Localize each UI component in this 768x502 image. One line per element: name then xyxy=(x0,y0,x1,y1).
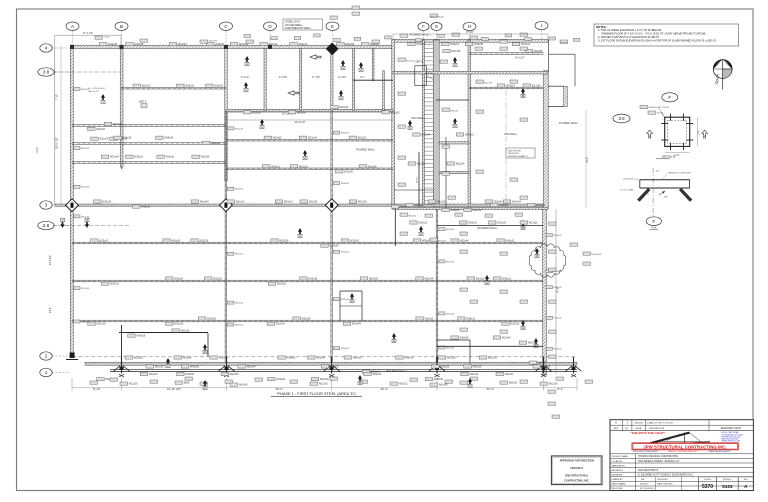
svg-text:W10x12: W10x12 xyxy=(528,342,537,345)
svg-text:W16x26: W16x26 xyxy=(439,384,448,387)
svg-text:W16x26: W16x26 xyxy=(277,283,286,286)
section flag A xyxy=(339,90,343,100)
svg-text:A: A xyxy=(704,134,706,138)
beam xyxy=(226,168,393,170)
room wall H strip lower xyxy=(439,172,469,174)
svg-text:SHOWN (CLARITY): SHOWN (CLARITY) xyxy=(508,155,528,158)
section flag D xyxy=(203,344,207,354)
svg-text:W10x12: W10x12 xyxy=(506,240,515,243)
svg-text:E: E xyxy=(393,339,395,343)
svg-text:D: D xyxy=(204,350,206,354)
svg-text:W12x26: W12x26 xyxy=(108,43,117,46)
column line beam xyxy=(436,209,438,364)
room bottom-right xyxy=(437,340,543,364)
svg-text:W12x19: W12x19 xyxy=(350,240,359,243)
grid bubble B xyxy=(115,22,128,46)
svg-text:W18x35: W18x35 xyxy=(434,378,443,381)
svg-text:W12x26: W12x26 xyxy=(446,347,455,349)
svg-text:27'-10": 27'-10" xyxy=(466,31,474,34)
svg-text:W12x19: W12x19 xyxy=(340,106,349,109)
section flag A xyxy=(303,150,307,160)
svg-text:A: A xyxy=(304,156,306,160)
right dimension line xyxy=(556,110,586,374)
svg-text:W10x12: W10x12 xyxy=(236,201,245,204)
section flag D down xyxy=(85,218,89,228)
svg-text:1: 1 xyxy=(45,370,48,375)
svg-text:W12x26: W12x26 xyxy=(235,254,244,256)
svg-text:(POURED WALL): (POURED WALL) xyxy=(477,226,498,230)
svg-text:W12x26: W12x26 xyxy=(447,357,456,360)
beam xyxy=(121,87,226,89)
svg-text:W10x12: W10x12 xyxy=(134,156,143,159)
section A-A braces xyxy=(637,188,692,202)
top-left dim line xyxy=(55,32,121,46)
svg-text:W16x26: W16x26 xyxy=(416,43,425,46)
svg-text:JPW STRUCTURAL: JPW STRUCTURAL xyxy=(565,473,589,477)
svg-text:W16x31: W16x31 xyxy=(509,382,518,385)
svg-text:1'-4": 1'-4" xyxy=(698,130,701,135)
section flag K xyxy=(408,120,412,130)
room wall H strip upper xyxy=(439,142,469,144)
svg-text:H: H xyxy=(486,281,488,285)
svg-text:A: A xyxy=(245,88,247,92)
svg-text:W12x19: W12x19 xyxy=(100,138,109,141)
svg-text:W18x35: W18x35 xyxy=(391,111,400,114)
svg-text:W21x44: W21x44 xyxy=(239,43,248,46)
section flag D xyxy=(203,380,207,390)
section flag M xyxy=(521,220,525,230)
svg-text:JPW STRUCTURAL CONTRACTING INC: JPW STRUCTURAL CONTRACTING INC. xyxy=(643,444,726,449)
svg-text:W18x35: W18x35 xyxy=(460,337,469,340)
svg-text:W12x19: W12x19 xyxy=(102,201,111,204)
svg-text:F: F xyxy=(652,219,655,224)
north rooms dim texts xyxy=(226,57,525,125)
svg-text:ENGINEER: ENGINEER xyxy=(612,475,623,477)
svg-text:W12x19: W12x19 xyxy=(437,201,446,204)
svg-text:W21x44: W21x44 xyxy=(425,278,434,281)
svg-text:W12x26: W12x26 xyxy=(440,366,449,369)
svg-text:W12x19: W12x19 xyxy=(211,142,220,145)
svg-text:FABRICATOR: FABRICATOR xyxy=(612,464,626,467)
section flag B xyxy=(534,338,538,348)
svg-text:W18x35: W18x35 xyxy=(369,278,378,281)
svg-text:W21x44: W21x44 xyxy=(421,134,430,137)
svg-text:POURED WALL: POURED WALL xyxy=(356,148,375,152)
top wall of NE block xyxy=(392,39,548,42)
svg-text:W12x26: W12x26 xyxy=(122,137,131,140)
grid bubble I xyxy=(535,21,548,40)
column labels xyxy=(74,87,563,350)
svg-text:W16x26: W16x26 xyxy=(451,209,460,212)
beam xyxy=(72,143,226,145)
notes block xyxy=(594,24,739,46)
svg-text:B: B xyxy=(120,24,123,29)
stair wall grid-G xyxy=(433,40,439,209)
wall grid-C xyxy=(225,46,227,181)
bottom dimension string xyxy=(72,378,577,391)
svg-text:W16x31: W16x31 xyxy=(408,215,417,217)
svg-text:W21x44: W21x44 xyxy=(352,323,361,326)
svg-text:W16x31: W16x31 xyxy=(284,201,293,204)
column line beam xyxy=(394,209,396,246)
svg-text:W16x31: W16x31 xyxy=(298,43,307,46)
svg-text:7-B12: 7-B12 xyxy=(104,36,111,38)
svg-text:W18x35: W18x35 xyxy=(287,357,296,360)
grid bubble 3 xyxy=(40,201,70,209)
svg-text:W18x35: W18x35 xyxy=(499,204,508,207)
svg-text:DECK NOT: DECK NOT xyxy=(508,153,520,155)
grid bubble G xyxy=(431,23,442,41)
svg-text:W16x31: W16x31 xyxy=(185,85,194,88)
svg-text:JOB No.: JOB No. xyxy=(704,479,712,481)
svg-text:W12x26: W12x26 xyxy=(554,318,563,320)
section flag B xyxy=(358,375,362,385)
bottom labels xyxy=(90,377,593,385)
NE protrusion outline xyxy=(548,40,575,107)
section A-A labels xyxy=(620,171,691,195)
svg-text:W12x26: W12x26 xyxy=(341,348,350,350)
svg-text:KGD ARCHITECTS: KGD ARCHITECTS xyxy=(638,469,659,472)
svg-text:W10x12: W10x12 xyxy=(149,373,158,376)
svg-text:W12x26: W12x26 xyxy=(134,357,143,360)
det-A room NE block xyxy=(415,66,434,86)
svg-text:1500 SENECA STREET - BUFFALO,: 1500 SENECA STREET - BUFFALO, NY xyxy=(638,460,680,463)
svg-text:W16x26: W16x26 xyxy=(113,123,122,126)
svg-text:W12x26: W12x26 xyxy=(280,240,289,243)
wall A end column xyxy=(66,353,78,360)
svg-text:W12x26: W12x26 xyxy=(341,299,350,301)
svg-text:(POURED WALL): (POURED WALL) xyxy=(409,32,430,36)
svg-text:W12x26: W12x26 xyxy=(309,201,318,204)
svg-text:E. SQUARED W/ ITT CONSULT SUSS: E. SQUARED W/ ITT CONSULT SUSSE BORG PLL… xyxy=(638,474,694,477)
precast note box xyxy=(283,19,323,30)
grid 3.8 dashed line xyxy=(53,71,121,73)
svg-text:W10x12: W10x12 xyxy=(465,134,474,137)
svg-text:24'-3 1/2": 24'-3 1/2" xyxy=(49,255,52,266)
svg-text:6B18: 6B18 xyxy=(184,382,190,385)
svg-text:W16x31: W16x31 xyxy=(172,240,181,243)
svg-text:HSS8x8 COL BEYOND: HSS8x8 COL BEYOND xyxy=(668,173,691,175)
svg-text:G: G xyxy=(435,24,438,29)
svg-text:K: K xyxy=(454,124,456,128)
svg-text:W16x26: W16x26 xyxy=(542,366,551,369)
svg-text:W12x26: W12x26 xyxy=(174,278,183,281)
beam labels xyxy=(88,43,552,382)
svg-text:W10x12: W10x12 xyxy=(399,383,408,386)
section flag E xyxy=(392,333,396,343)
section flag J xyxy=(101,94,105,104)
svg-text:8'-4 1/2": 8'-4 1/2" xyxy=(515,57,524,60)
svg-text:3/4" PL: 3/4" PL xyxy=(657,113,665,115)
svg-text:W16x31: W16x31 xyxy=(468,222,477,225)
svg-text:W12x19: W12x19 xyxy=(319,383,328,386)
floor plan xyxy=(35,21,586,377)
svg-text:74'-2": 74'-2" xyxy=(35,147,39,154)
NE block interior wall xyxy=(394,137,446,208)
svg-text:W16x31: W16x31 xyxy=(271,165,280,168)
svg-text:W12x26: W12x26 xyxy=(213,278,222,281)
svg-text:"THE BOYS THE LIGHT": "THE BOYS THE LIGHT" xyxy=(630,431,665,435)
svg-text:RELEASED 2/10/17: RELEASED 2/10/17 xyxy=(721,427,742,430)
partition wall north rooms xyxy=(264,49,266,111)
svg-text:3: 3 xyxy=(45,203,48,208)
svg-text:W16x26: W16x26 xyxy=(207,318,216,321)
svg-text:W12x19: W12x19 xyxy=(219,357,228,360)
precast beam band xyxy=(85,362,577,365)
svg-text:W21x44: W21x44 xyxy=(469,373,478,376)
svg-text:W12x26: W12x26 xyxy=(209,40,218,42)
svg-text:W12x26: W12x26 xyxy=(235,324,244,326)
det A label NE xyxy=(416,60,424,64)
svg-text:W18x35: W18x35 xyxy=(141,206,150,209)
svg-text:DRW No.: DRW No. xyxy=(723,479,732,481)
svg-text:W16x31: W16x31 xyxy=(110,283,119,286)
svg-text:1'-0": 1'-0" xyxy=(675,154,680,157)
beam xyxy=(72,162,226,164)
det A label west xyxy=(139,100,147,108)
svg-text:W12x26: W12x26 xyxy=(345,43,354,46)
svg-text:W18x35: W18x35 xyxy=(215,43,224,46)
svg-text:W16x26: W16x26 xyxy=(330,245,339,248)
grid bubble E xyxy=(326,22,339,46)
beam xyxy=(353,79,393,81)
svg-text:REV: REV xyxy=(744,479,749,481)
svg-text:K: K xyxy=(61,218,63,222)
beam xyxy=(72,242,543,244)
section flag H xyxy=(485,275,489,285)
svg-text:4'-0 3/4": 4'-0 3/4" xyxy=(279,77,288,79)
post in F strip xyxy=(417,152,420,207)
column w/ base plate xyxy=(566,357,582,377)
svg-text:4'-3 1/2": 4'-3 1/2" xyxy=(241,77,250,79)
svg-text:W12x26: W12x26 xyxy=(549,383,558,386)
grid-3 beam line xyxy=(55,204,543,206)
title block xyxy=(610,420,753,491)
section flag C xyxy=(468,378,472,388)
east wall upper xyxy=(543,71,548,209)
svg-text:W12x19: W12x19 xyxy=(484,82,493,84)
JPW logo name box xyxy=(632,443,738,450)
svg-text:3/4": 3/4" xyxy=(656,171,660,173)
svg-text:W18x35: W18x35 xyxy=(273,137,282,140)
column w/ base plate xyxy=(114,357,130,377)
grid bubble 4 xyxy=(40,44,70,52)
svg-text:DRAWN BY: DRAWN BY xyxy=(612,478,624,481)
column line beam xyxy=(331,111,333,364)
svg-text:DATE DRAWN: DATE DRAWN xyxy=(612,482,626,485)
svg-text:3.8: 3.8 xyxy=(43,70,50,75)
detail B callout circle F xyxy=(662,93,678,102)
svg-text:W10x12: W10x12 xyxy=(269,43,278,46)
JPW logo address xyxy=(722,431,744,442)
svg-text:W12x26: W12x26 xyxy=(235,303,244,305)
svg-text:W12x26: W12x26 xyxy=(456,163,465,166)
svg-text:W12x26: W12x26 xyxy=(201,156,210,159)
section flag A xyxy=(244,82,248,92)
svg-text:L6x6x5/16: L6x6x5/16 xyxy=(623,179,634,181)
svg-text:1B22 W16x26: 1B22 W16x26 xyxy=(430,16,445,18)
svg-text:FIELD USE: FIELD USE xyxy=(612,488,623,490)
svg-text:W16x31: W16x31 xyxy=(417,163,426,166)
svg-text:DATE CHECKED: DATE CHECKED xyxy=(657,482,673,485)
svg-text:24'-0": 24'-0" xyxy=(557,287,560,293)
svg-text:A: A xyxy=(649,134,651,138)
svg-text:W16x26: W16x26 xyxy=(183,357,192,360)
bottom labels 2 xyxy=(120,381,558,387)
beam xyxy=(72,320,543,322)
svg-text:W16x31: W16x31 xyxy=(404,357,413,360)
svg-text:4'-0": 4'-0" xyxy=(360,77,365,79)
NE protrusion wall xyxy=(564,86,568,106)
room bottom-left xyxy=(119,325,208,365)
detail 3.8 oval xyxy=(613,114,630,123)
svg-text:5370: 5370 xyxy=(702,484,713,490)
svg-text:E: E xyxy=(331,24,334,29)
svg-text:W12x26: W12x26 xyxy=(554,235,563,237)
svg-text:CHK BY/BY: CHK BY/BY xyxy=(657,479,668,481)
svg-text:W21x44: W21x44 xyxy=(200,201,209,204)
svg-text:36'-10 1/2": 36'-10 1/2" xyxy=(56,137,59,149)
grid 2.8 dashed line xyxy=(53,225,130,227)
grid-1 beam pair xyxy=(110,369,577,371)
svg-text:A-A: A-A xyxy=(651,226,656,230)
svg-text:W12x26: W12x26 xyxy=(199,240,208,243)
svg-text:7'-10": 7'-10" xyxy=(56,94,59,100)
svg-text:W12x26: W12x26 xyxy=(81,187,90,189)
svg-text:"AN A.I.S.C. CERTIFIED ERECTOR: "AN A.I.S.C. CERTIFIED ERECTOR" xyxy=(668,450,698,453)
section flag A xyxy=(245,56,249,66)
svg-text:NOTES:: NOTES: xyxy=(596,25,607,29)
svg-text:W21x44: W21x44 xyxy=(110,156,119,159)
svg-text:W12x26: W12x26 xyxy=(446,229,455,231)
svg-text:W12x26: W12x26 xyxy=(214,85,223,88)
svg-text:W16x26: W16x26 xyxy=(320,378,329,381)
svg-text:01/26/17: 01/26/17 xyxy=(640,483,649,485)
section flag M xyxy=(521,88,525,98)
svg-text:A: A xyxy=(340,96,342,100)
section flag H xyxy=(521,320,525,330)
svg-text:W12x26: W12x26 xyxy=(129,383,138,386)
beam xyxy=(469,53,544,55)
column mark xyxy=(70,45,74,49)
svg-text:DETAIL B: DETAIL B xyxy=(662,155,675,159)
grid bubble 2.8 xyxy=(38,221,70,229)
svg-text:F: F xyxy=(668,95,671,100)
section flag A xyxy=(341,60,345,70)
svg-text:CRANE RENTAL SERVICE: CRANE RENTAL SERVICE xyxy=(708,450,731,453)
svg-text:W12x26: W12x26 xyxy=(473,366,482,369)
NE block labels xyxy=(398,47,528,242)
svg-text:W12x26: W12x26 xyxy=(358,201,367,204)
svg-text:W12x26: W12x26 xyxy=(497,222,506,225)
big room centerline xyxy=(505,90,507,206)
svg-text:4'-7 3/4": 4'-7 3/4" xyxy=(312,77,321,79)
wall grid-B xyxy=(120,46,123,167)
top wall labels dense xyxy=(244,34,580,42)
detail B leader labels xyxy=(640,106,669,120)
job number cells xyxy=(699,477,754,491)
svg-text:CMU WALL: CMU WALL xyxy=(411,117,425,120)
svg-text:W18x35: W18x35 xyxy=(190,366,199,369)
beam xyxy=(72,125,226,127)
svg-text:03/02/20: 03/02/20 xyxy=(634,423,643,425)
svg-text:W16x31: W16x31 xyxy=(502,278,511,281)
svg-text:DET A: DET A xyxy=(139,100,147,104)
svg-text:B: B xyxy=(359,381,361,385)
section A-A centerline xyxy=(652,168,654,216)
section flag K xyxy=(453,118,457,128)
column diamond symbol xyxy=(325,199,338,212)
left dimension line xyxy=(35,46,61,313)
svg-text:03/01/2017: 03/01/2017 xyxy=(570,466,583,470)
south wall of NE block xyxy=(393,207,548,209)
column w/ base plate xyxy=(429,357,445,377)
svg-text:W12x26: W12x26 xyxy=(341,133,350,135)
grid bubble 2 xyxy=(40,352,70,360)
detail B title xyxy=(656,155,675,159)
svg-text:THOMAS FINANCIAL CORPORATION: THOMAS FINANCIAL CORPORATION xyxy=(638,455,678,458)
svg-text:W16x26: W16x26 xyxy=(450,110,459,112)
grid bubble F xyxy=(418,23,429,41)
section flag R xyxy=(535,248,539,258)
svg-text:STEEL ERECTORS-RIGGERS: STEEL ERECTORS-RIGGERS xyxy=(633,451,659,453)
section flag K down xyxy=(60,218,64,228)
beam 2.8 east xyxy=(437,225,543,227)
svg-text:K: K xyxy=(409,126,411,130)
JPW logo slogan xyxy=(630,431,665,435)
svg-text:PROJECT NAME: PROJECT NAME xyxy=(612,455,629,458)
svg-text:W12x26: W12x26 xyxy=(488,357,497,360)
svg-text:W10x12: W10x12 xyxy=(99,240,108,243)
svg-text:2.8: 2.8 xyxy=(43,223,50,228)
svg-text:W12x26: W12x26 xyxy=(96,128,105,131)
svg-text:W12x26: W12x26 xyxy=(406,60,415,62)
cmu wall labels xyxy=(411,117,518,136)
svg-text:W16x26: W16x26 xyxy=(136,335,145,338)
grid bubble D xyxy=(264,22,277,46)
AB room text xyxy=(88,88,106,93)
svg-text:W12x26: W12x26 xyxy=(532,85,541,88)
svg-text:CONTRACTING, INC.: CONTRACTING, INC. xyxy=(564,479,590,483)
svg-text:W16x26: W16x26 xyxy=(239,384,248,387)
column line beam xyxy=(121,167,123,169)
svg-text:W21x44: W21x44 xyxy=(521,43,530,46)
svg-text:1. TOP OF STEEL ELEVATION (-1': 1. TOP OF STEEL ELEVATION (-1'-5") T/F I… xyxy=(598,28,662,32)
partition wall north rooms xyxy=(300,49,302,111)
svg-text:2-BMS 10'-7/8" TO 10'-5/8": 2-BMS 10'-7/8" TO 10'-5/8" xyxy=(647,423,673,425)
section flag C xyxy=(166,358,170,368)
detail B square xyxy=(661,114,700,157)
svg-text:W21x44: W21x44 xyxy=(316,357,325,360)
svg-text:(POURED WALL): (POURED WALL) xyxy=(386,369,407,373)
svg-text:17'-1 1/2": 17'-1 1/2" xyxy=(83,32,93,35)
svg-text:W10x12: W10x12 xyxy=(358,137,367,140)
small mid room xyxy=(340,291,362,321)
svg-text:W12x26: W12x26 xyxy=(341,183,350,185)
svg-text:W10x12: W10x12 xyxy=(353,357,362,360)
wall grid-F xyxy=(422,40,424,209)
partition wall short E-F xyxy=(372,49,374,81)
svg-text:W12x26: W12x26 xyxy=(510,323,519,326)
svg-text:G: G xyxy=(420,232,422,236)
approval stamp xyxy=(551,456,602,485)
svg-text:W12x19: W12x19 xyxy=(181,330,190,333)
phase label xyxy=(271,391,362,396)
svg-text:W12x26: W12x26 xyxy=(299,165,308,168)
svg-text:W12x26: W12x26 xyxy=(81,321,90,323)
svg-text:H: H xyxy=(522,326,524,330)
svg-text:W21x44: W21x44 xyxy=(460,240,469,243)
